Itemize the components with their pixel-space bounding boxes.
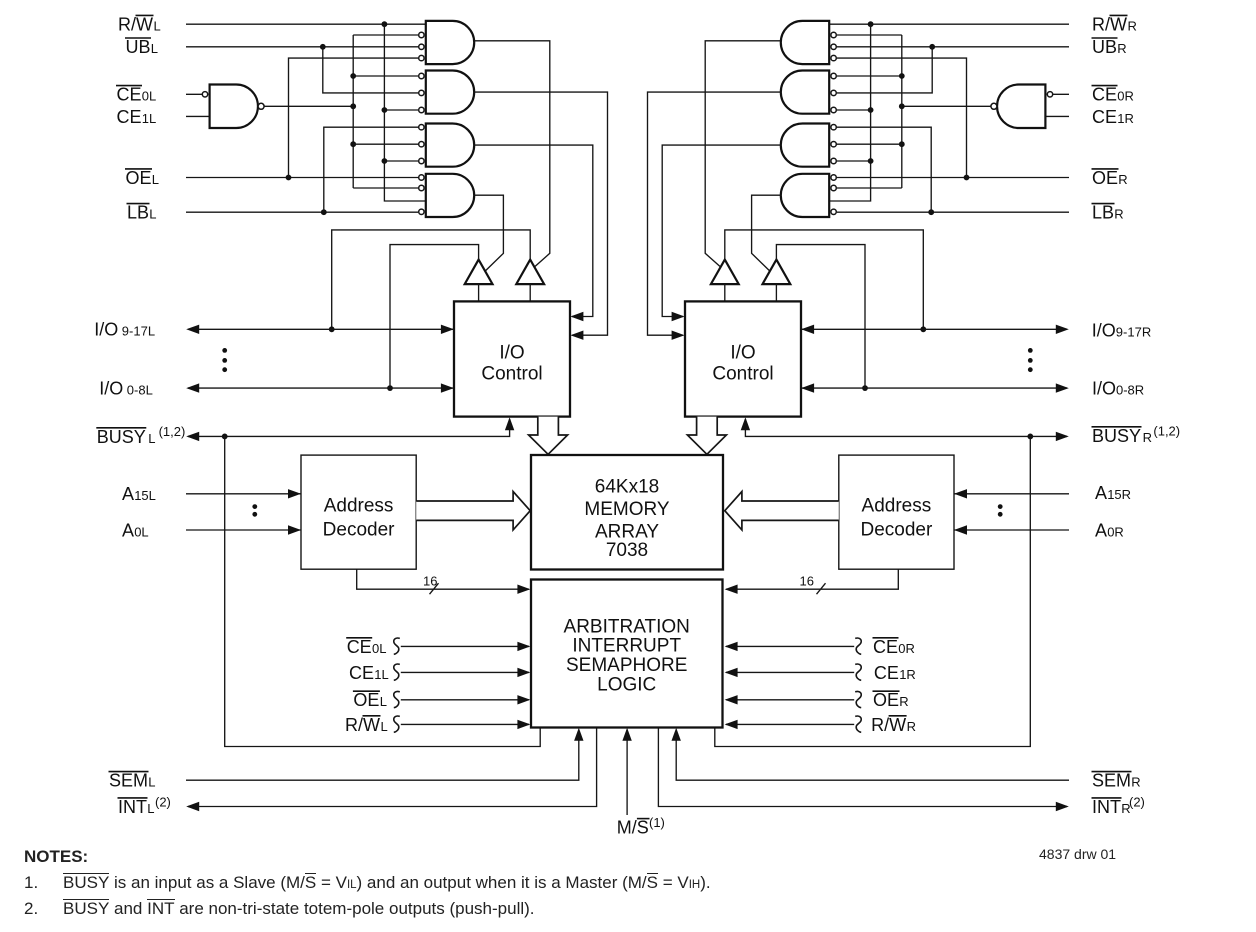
- arrowhead CE0L arb arrow: [517, 642, 530, 651]
- svg-text:0R: 0R: [1117, 89, 1134, 104]
- arrowhead CE0R arb arrow: [725, 642, 738, 651]
- wire UBL riser to gate2: [323, 47, 418, 93]
- arrowhead R/WL arb arrow: [517, 720, 530, 729]
- junction LBL node: [321, 209, 327, 215]
- svg-text:R: R: [1117, 41, 1126, 56]
- 64Kx18 Memory Array box: [531, 455, 723, 570]
- svg-text:0-8L: 0-8L: [127, 383, 153, 398]
- arrowhead A0L arrow: [288, 525, 301, 534]
- label I/O Control box R text: [712, 343, 773, 385]
- svg-text:A: A: [1095, 520, 1107, 540]
- wire R/WR arb line: [726, 723, 854, 725]
- wire A0R line: [954, 529, 1069, 531]
- arrowhead R/WR arb arrow: [725, 720, 738, 729]
- label CE1R arb: [874, 663, 916, 683]
- colon dots AL: [252, 504, 257, 509]
- svg-text:SEMAPHORE: SEMAPHORE: [566, 655, 687, 676]
- wire G3R output to I/O control: [662, 145, 781, 316]
- wire OER arb line: [726, 699, 854, 701]
- wire BUSYL line: [188, 419, 510, 436]
- svg-text:R: R: [1114, 207, 1123, 222]
- arrowhead INTL outer arrow: [186, 802, 199, 811]
- AND gate G2R: [781, 71, 829, 114]
- svg-text:INT: INT: [118, 797, 147, 817]
- wire A15R line: [954, 493, 1069, 495]
- NAND U1R input bubble: [1047, 92, 1052, 97]
- junction I/O 9-17L node: [329, 326, 335, 332]
- svg-text:CE: CE: [117, 85, 142, 105]
- wire OER line: [837, 177, 1069, 179]
- arrowhead G2L output arrow: [570, 331, 583, 340]
- squiggle R/WR arb: [855, 716, 861, 732]
- wire R/WR column: [829, 24, 870, 201]
- svg-text:R: R: [1131, 775, 1140, 790]
- G1L input bubble: [419, 32, 424, 37]
- svg-text:UB: UB: [1092, 37, 1117, 57]
- arrowhead BUSYR arrow into I/O control: [741, 417, 750, 430]
- G3R input bubble: [831, 125, 836, 130]
- arrowhead CE1R arb arrow: [725, 668, 738, 677]
- label I/O 9-17L: [94, 320, 155, 340]
- G1R input bubble: [831, 44, 836, 49]
- wire CE1L arb line: [401, 671, 529, 673]
- wire CER stub to gate4: [837, 187, 902, 189]
- label Address Decoder box R text: [860, 495, 932, 540]
- arrowhead A15R arrow: [954, 489, 967, 498]
- label CE0R: [1092, 85, 1134, 105]
- label I/O Control box L text: [481, 343, 542, 385]
- arrowhead SEML arrow into arbitration: [574, 728, 583, 741]
- wire I/O 9-17L riser to buffer T2L: [332, 230, 531, 329]
- arrowhead M/S arrow into arbitration: [622, 728, 631, 741]
- svg-text:I/O: I/O: [730, 343, 755, 364]
- junction R/WR node: [868, 21, 874, 27]
- svg-text:R: R: [1143, 430, 1152, 445]
- Address Decoder box L: [301, 455, 416, 569]
- junction CEL node g3: [350, 141, 356, 147]
- colon dots AR: [998, 504, 1003, 509]
- wire CE0L line: [186, 93, 202, 95]
- label INTL(2): [118, 794, 171, 817]
- wire I/O 0-8L bus line: [188, 387, 454, 389]
- wire CE0R arb line: [726, 645, 854, 647]
- G4L input bubble: [419, 185, 424, 190]
- svg-text:7038: 7038: [606, 540, 648, 561]
- wire CEL stub to gate2: [353, 75, 418, 77]
- bus arrow I/O control L to memory array: [529, 417, 568, 455]
- svg-text:R/W: R/W: [871, 715, 906, 735]
- label label 16 L: [423, 574, 437, 589]
- svg-text:R: R: [1118, 172, 1127, 187]
- label I/O9-17R: [1092, 321, 1151, 341]
- label UBL: [125, 37, 158, 57]
- junction node CEL join: [350, 103, 356, 109]
- squiggle CE0L arb: [394, 638, 400, 654]
- wire CEL stub to gate1: [353, 34, 418, 36]
- wire I/O 0-8R riser to buffer T1R: [776, 245, 865, 389]
- bus arrow Address Decoder R to memory array: [725, 492, 839, 530]
- label CE0L: [116, 85, 156, 105]
- arrowhead I/O 0-8R outer arrow: [1056, 383, 1069, 392]
- label Memory Array text: [584, 476, 669, 561]
- arrowhead I/O 9-17R outer arrow: [1056, 325, 1069, 334]
- wire buffer T2L stem: [529, 284, 531, 301]
- svg-text:R: R: [1128, 18, 1137, 33]
- svg-text:Control: Control: [712, 364, 773, 385]
- arrowhead I/O 0-8L box arrow: [441, 383, 454, 392]
- wire R/WL line: [186, 23, 426, 25]
- wire CE1R arb line: [726, 671, 854, 673]
- junction UBR node: [929, 44, 935, 50]
- wire I/O 0-8L riser to buffer T1L: [390, 245, 479, 389]
- svg-text:LB: LB: [1092, 203, 1114, 223]
- svg-text:(1): (1): [649, 815, 665, 830]
- wire CER stub to gate3: [837, 143, 902, 145]
- wire G3L output to I/O control: [474, 145, 593, 316]
- arrowhead A15L arrow: [288, 489, 301, 498]
- wire SEML line: [186, 730, 579, 781]
- G2L input bubble: [419, 90, 424, 95]
- svg-text:15R: 15R: [1107, 487, 1131, 502]
- label CE0L arb: [346, 637, 386, 657]
- junction OER node: [964, 175, 970, 181]
- wire OER riser to gate1: [837, 58, 967, 177]
- arrowhead G2R output arrow: [672, 331, 685, 340]
- svg-text:BUSY: BUSY: [97, 427, 146, 447]
- svg-text:Control: Control: [481, 364, 542, 385]
- wire BUSYR line: [745, 419, 1067, 436]
- svg-text:1L: 1L: [142, 111, 156, 126]
- svg-text:1L: 1L: [374, 667, 388, 682]
- arrowhead 16-bit bus L arrow: [517, 585, 530, 594]
- NAND U1L input bubble: [202, 92, 207, 97]
- G1L input bubble: [419, 55, 424, 60]
- label R/WR arb: [871, 715, 916, 735]
- svg-text:CE: CE: [349, 663, 374, 683]
- svg-text:CE: CE: [1092, 85, 1117, 105]
- junction node CER join: [899, 103, 905, 109]
- wire I/O 9-17R riser to buffer T2R: [725, 230, 924, 329]
- junction R/WR node g2: [868, 107, 874, 113]
- arrowhead BUSYR outer arrow: [1056, 432, 1069, 441]
- svg-text:OE: OE: [126, 168, 152, 188]
- notes heading: [24, 847, 784, 867]
- G1R input bubble: [831, 32, 836, 37]
- AND gate G3R: [781, 124, 829, 167]
- label M/S(1): [617, 815, 665, 838]
- svg-text:L: L: [151, 41, 158, 56]
- svg-text:R/W: R/W: [1092, 14, 1127, 34]
- AND gate G3L: [426, 124, 474, 167]
- label R/WR: [1092, 14, 1137, 34]
- AND gate G1R: [781, 21, 829, 64]
- arrowhead SEMR arrow into arbitration: [672, 728, 681, 741]
- wire CER stub to gate2: [837, 75, 902, 77]
- wire R/WR stub to gate2: [837, 109, 871, 111]
- arrowhead 16-bit bus R arrow: [725, 585, 738, 594]
- junction CER node g2: [899, 73, 905, 79]
- svg-text:I/O: I/O: [1092, 321, 1116, 341]
- wire buffer T1R stem: [775, 284, 777, 301]
- G2R input bubble: [831, 107, 836, 112]
- G3L input bubble: [419, 125, 424, 130]
- svg-text:M/S: M/S: [617, 818, 649, 838]
- svg-text:A: A: [1095, 483, 1107, 503]
- wire G2L output to I/O control: [474, 92, 607, 335]
- label A0R: [1095, 520, 1124, 540]
- svg-text:CE: CE: [1092, 107, 1117, 127]
- svg-text:L: L: [381, 719, 388, 734]
- svg-text:0L: 0L: [372, 641, 386, 656]
- arrowhead OEL arb arrow: [517, 695, 530, 704]
- G1L input bubble: [419, 44, 424, 49]
- svg-text:Address: Address: [862, 495, 932, 516]
- svg-text:I/O: I/O: [94, 320, 118, 340]
- wire OEL line: [186, 177, 418, 179]
- arrowhead OER arb arrow: [725, 695, 738, 704]
- svg-text:0R: 0R: [898, 641, 915, 656]
- bus arrow Address Decoder L to memory array: [416, 492, 530, 530]
- svg-text:A: A: [122, 520, 134, 540]
- wire R/WR stub to gate3: [837, 160, 871, 162]
- svg-text:CE: CE: [873, 637, 898, 657]
- buffer T2R: [711, 260, 739, 285]
- wire LBL line: [186, 211, 418, 213]
- squiggle OEL arb: [394, 691, 400, 707]
- svg-text:UB: UB: [126, 37, 151, 57]
- svg-text:I/O: I/O: [99, 379, 123, 399]
- svg-text:LB: LB: [127, 203, 149, 223]
- junction R/WL node g3: [382, 158, 388, 164]
- label I/O 0-8L: [99, 379, 153, 399]
- svg-text:16: 16: [800, 574, 814, 589]
- wire LBR riser to gate3: [837, 127, 931, 212]
- NAND gate U1R: [997, 85, 1045, 129]
- G2R input bubble: [831, 73, 836, 78]
- label UBR: [1092, 37, 1127, 57]
- G4L input bubble: [419, 175, 424, 180]
- wire UBR line: [837, 46, 1069, 48]
- label BUSYR(1,2): [1092, 423, 1181, 446]
- junction R/WL node g2: [382, 107, 388, 113]
- label SEMR: [1092, 771, 1141, 791]
- arrowhead G3R output arrow: [672, 312, 685, 321]
- G4R input bubble: [831, 185, 836, 190]
- arrowhead I/O 9-17L box arrow: [441, 325, 454, 334]
- junction LBR node: [928, 209, 934, 215]
- junction R/WL node: [382, 21, 388, 27]
- svg-text:0L: 0L: [142, 89, 156, 104]
- svg-text:4837 drw 01: 4837 drw 01: [1039, 846, 1116, 862]
- squiggle OER arb: [855, 691, 861, 707]
- wire UBL line: [186, 46, 418, 48]
- junction BUSYL node: [222, 434, 228, 440]
- svg-text:CE: CE: [874, 663, 899, 683]
- junction I/O 0-8L node: [387, 385, 393, 391]
- svg-text:ARBITRATION: ARBITRATION: [564, 616, 690, 637]
- wire LBR line: [837, 211, 1069, 213]
- arrowhead BUSYL arrow into I/O control: [505, 417, 514, 430]
- svg-text:CE: CE: [117, 107, 142, 127]
- ellipsis dots I/OL: [222, 348, 227, 353]
- wire G4R output to buffer T1R: [752, 195, 781, 271]
- note 2: [24, 899, 784, 919]
- label BUSYL(1,2): [96, 424, 185, 447]
- svg-text:INTERRUPT: INTERRUPT: [572, 636, 681, 657]
- label CE1L: [117, 107, 157, 127]
- junction I/O 0-8R node: [862, 385, 868, 391]
- buffer T2L: [516, 260, 544, 285]
- AND gate G2L: [426, 71, 474, 114]
- svg-text:64Kx18: 64Kx18: [595, 476, 659, 497]
- junction OEL node: [286, 175, 292, 181]
- svg-text:(2): (2): [155, 794, 171, 809]
- wire R/WL column: [384, 24, 425, 201]
- svg-text:INT: INT: [1092, 797, 1121, 817]
- svg-text:OE: OE: [873, 690, 899, 710]
- wire R/WL arb line: [401, 723, 529, 725]
- wire R/WR line: [829, 23, 1069, 25]
- svg-text:1R: 1R: [1117, 111, 1134, 126]
- I/O Control box R: [685, 301, 801, 416]
- G4R input bubble: [831, 175, 836, 180]
- wire CEL stub to gate3: [353, 143, 418, 145]
- label OER: [1092, 168, 1128, 188]
- squiggle CE1R arb: [855, 664, 861, 680]
- G3R input bubble: [831, 158, 836, 163]
- wire BUSYR feedback to arbitration: [715, 436, 1031, 746]
- svg-text:R: R: [899, 694, 908, 709]
- label Address Decoder box L text: [323, 495, 395, 540]
- arrowhead I/O 0-8R box arrow: [801, 383, 814, 392]
- svg-text:9-17L: 9-17L: [122, 324, 155, 339]
- svg-text:L: L: [148, 775, 155, 790]
- wire CE1R line: [1045, 115, 1069, 117]
- wire CEL stub to gate4: [353, 187, 418, 189]
- junction UBL node: [320, 44, 326, 50]
- svg-text:OE: OE: [353, 690, 379, 710]
- svg-text:(1,2): (1,2): [1153, 423, 1180, 438]
- G1R input bubble: [831, 55, 836, 60]
- wire INTR line: [658, 728, 1067, 807]
- Arbitration Interrupt Semaphore Logic box: [531, 580, 723, 728]
- G3L input bubble: [419, 158, 424, 163]
- label A15R: [1095, 483, 1131, 503]
- I/O Control box L: [454, 301, 570, 416]
- bus slash R: [817, 583, 826, 594]
- arrowhead G3L output arrow: [570, 312, 583, 321]
- svg-text:MEMORY: MEMORY: [584, 499, 669, 520]
- svg-text:LOGIC: LOGIC: [597, 674, 656, 695]
- label R/WL: [118, 14, 161, 34]
- wire CEL column: [352, 35, 354, 188]
- label A15L: [122, 484, 156, 504]
- wire CE1L line: [186, 115, 210, 117]
- svg-text:CE: CE: [347, 637, 372, 657]
- wire LBL riser to gate3: [324, 127, 418, 212]
- wire buffer T1L stem: [478, 284, 480, 301]
- arrowhead I/O 9-17R box arrow: [801, 325, 814, 334]
- svg-text:0R: 0R: [1107, 524, 1124, 539]
- wire UBR riser to gate2: [837, 47, 932, 93]
- svg-text:I/O: I/O: [499, 343, 524, 364]
- notes block: [24, 847, 784, 919]
- wire SEMR line: [676, 730, 1069, 781]
- label INTR(2): [1092, 794, 1145, 817]
- label CE1R: [1092, 107, 1134, 127]
- wire M/S line: [626, 730, 628, 816]
- wire R/WL stub to gate3: [384, 160, 418, 162]
- wire G1L output to buffer T2L: [474, 41, 550, 268]
- wire I/O 0-8R bus line: [801, 387, 1067, 389]
- G2L input bubble: [419, 73, 424, 78]
- svg-text:R/W: R/W: [118, 14, 153, 34]
- label LBR: [1092, 203, 1124, 223]
- wire OEL arb line: [401, 699, 529, 701]
- squiggle CE0R arb: [855, 638, 861, 654]
- wire I/O 9-17R bus line: [801, 328, 1067, 330]
- svg-text:(2): (2): [1129, 794, 1145, 809]
- label OER arb: [873, 690, 909, 710]
- svg-text:R/W: R/W: [345, 715, 380, 735]
- label LBL: [127, 203, 157, 223]
- svg-text:L: L: [148, 431, 155, 446]
- arrowhead A0R arrow: [954, 525, 967, 534]
- svg-text:OE: OE: [1092, 168, 1118, 188]
- wire G1R output to buffer T2R: [705, 41, 781, 268]
- G4R input bubble: [831, 209, 836, 214]
- junction BUSYR node: [1027, 434, 1033, 440]
- svg-text:L: L: [149, 207, 156, 222]
- svg-text:Decoder: Decoder: [323, 519, 395, 540]
- label drawing number 4837 drw 01: [1039, 846, 1116, 862]
- arrowhead BUSYL outer arrow: [186, 432, 199, 441]
- squiggle R/WL arb: [394, 716, 400, 732]
- wire R/WL stub to gate2: [384, 109, 418, 111]
- G2R input bubble: [831, 90, 836, 95]
- AND gate G1L: [426, 21, 474, 64]
- wire CER column: [901, 35, 903, 188]
- wire CER stub to gate1: [837, 34, 902, 36]
- junction I/O 9-17R node: [920, 326, 926, 332]
- wire NAND U1R output: [902, 105, 991, 107]
- label I/O0-8R: [1092, 379, 1144, 399]
- wire OEL riser to gate1: [289, 58, 419, 177]
- svg-text:9-17R: 9-17R: [1116, 325, 1151, 340]
- svg-text:L: L: [380, 694, 387, 709]
- svg-text:L: L: [152, 172, 159, 187]
- wire I/O 9-17L bus line: [188, 328, 454, 330]
- buffer T1R: [763, 260, 791, 285]
- label A0L: [122, 520, 149, 540]
- wire NAND U1L output: [264, 105, 353, 107]
- bus arrow I/O control R to memory array: [687, 417, 726, 455]
- wire INTL line: [188, 728, 597, 807]
- wire BUSYL feedback to arbitration: [225, 436, 541, 746]
- svg-text:16: 16: [423, 574, 437, 589]
- svg-text:SEM: SEM: [1092, 771, 1131, 791]
- svg-text:0L: 0L: [134, 524, 148, 539]
- squiggle CE1L arb: [394, 664, 400, 680]
- svg-text:Address: Address: [324, 495, 394, 516]
- wire G4L output to buffer T1L: [474, 195, 503, 271]
- NAND U1R output bubble: [991, 103, 997, 109]
- buffer T1L: [465, 260, 493, 285]
- G3L input bubble: [419, 142, 424, 147]
- AND gate G4R: [781, 174, 829, 217]
- label R/WL arb: [345, 715, 388, 735]
- G2L input bubble: [419, 107, 424, 112]
